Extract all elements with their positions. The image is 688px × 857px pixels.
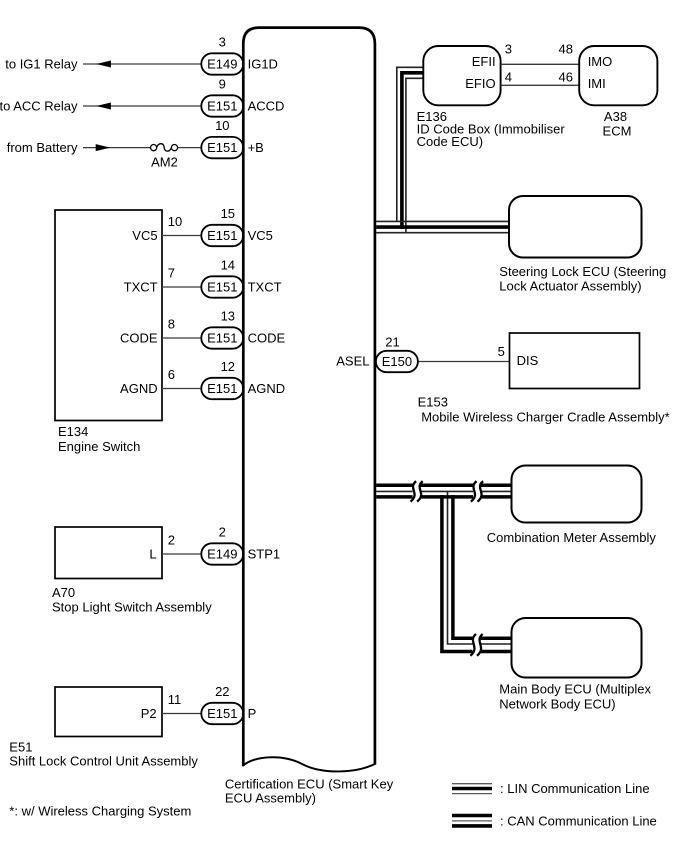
svg-text:Lock Actuator Assembly): Lock Actuator Assembly)	[499, 279, 641, 294]
wire TXCT	[162, 286, 212, 288]
svg-text:E149: E149	[207, 547, 237, 562]
svg-text:E151: E151	[207, 99, 237, 114]
svg-text:21: 21	[385, 334, 399, 349]
svg-text:Certification ECU (Smart Key: Certification ECU (Smart Key	[225, 776, 394, 791]
svg-text:A70: A70	[52, 585, 75, 600]
svg-text:E134: E134	[58, 424, 88, 439]
svg-text:EFIO: EFIO	[465, 76, 495, 91]
component box E134 Engine Switch	[55, 210, 162, 421]
wire L to STP1	[162, 553, 212, 555]
svg-text:IMO: IMO	[588, 54, 613, 69]
svg-text:DIS: DIS	[517, 353, 539, 368]
component box E51 Shift Lock Control Unit	[55, 687, 162, 737]
svg-text:to IG1 Relay: to IG1 Relay	[5, 56, 78, 71]
legend CAN symbol	[452, 814, 492, 818]
svg-text:13: 13	[221, 308, 235, 323]
wire EFII-IMO	[501, 63, 580, 65]
svg-text:VC5: VC5	[132, 228, 157, 243]
svg-text:ASEL: ASEL	[336, 354, 369, 369]
svg-text:EFII: EFII	[472, 54, 496, 69]
svg-text:from Battery: from Battery	[7, 140, 78, 155]
ECU torn bottom edge	[242, 757, 376, 771]
svg-text:E151: E151	[207, 381, 237, 396]
arrow from Battery	[96, 144, 111, 151]
svg-text:TXCT: TXCT	[248, 279, 282, 294]
wire from Battery	[83, 147, 150, 149]
svg-text:5: 5	[498, 344, 505, 359]
svg-text:ECU Assembly): ECU Assembly)	[225, 791, 316, 806]
svg-text:P: P	[248, 706, 257, 721]
svg-text:P2: P2	[141, 706, 157, 721]
connector E151 pin 15 (VC5)	[201, 225, 243, 246]
svg-text:E151: E151	[207, 280, 237, 295]
svg-text:3: 3	[219, 34, 226, 49]
svg-text:TXCT: TXCT	[124, 279, 158, 294]
svg-text:2: 2	[168, 532, 175, 547]
arrow to ACC Relay	[96, 103, 111, 110]
wire CODE	[162, 337, 212, 339]
svg-text:E149: E149	[207, 57, 237, 72]
svg-text:L: L	[149, 546, 156, 561]
wire break symbol 1	[413, 481, 421, 502]
svg-text:VC5: VC5	[248, 228, 273, 243]
ECU box A38 ECM	[579, 46, 657, 105]
component box E153 Mobile Wireless Charger Cradle	[510, 333, 640, 389]
svg-text:E151: E151	[207, 331, 237, 346]
svg-text:IMI: IMI	[588, 76, 606, 91]
svg-text:AGND: AGND	[120, 381, 158, 396]
wire AGND	[162, 388, 212, 390]
connector E151 pin 9 (ACCD)	[201, 95, 243, 116]
connector E151 pin 12 (AGND)	[201, 378, 243, 399]
svg-text:2: 2	[219, 524, 226, 539]
svg-text:8: 8	[168, 316, 175, 331]
svg-text:STP1: STP1	[248, 546, 281, 561]
connector E151 pin 14 (TXCT)	[201, 276, 243, 297]
wire to IG1 Relay	[83, 63, 212, 65]
connector E151 pin 22 (P)	[201, 703, 243, 724]
svg-text:Code ECU): Code ECU)	[417, 134, 483, 149]
svg-text:9: 9	[219, 76, 226, 91]
wire to ACC Relay	[83, 105, 212, 107]
svg-text:to ACC Relay: to ACC Relay	[0, 98, 78, 113]
svg-text:AGND: AGND	[248, 381, 286, 396]
component box A70 Stop Light Switch	[55, 527, 162, 579]
connector E149 pin 3 (IG1D)	[201, 53, 243, 74]
connector E150 pin 21 (ASEL)	[376, 351, 418, 372]
svg-text:46: 46	[559, 70, 573, 85]
svg-text:6: 6	[168, 367, 175, 382]
ECU box Combination Meter Assembly	[512, 466, 642, 523]
svg-text:E151: E151	[207, 140, 237, 155]
svg-text:E151: E151	[207, 228, 237, 243]
svg-text:E151: E151	[207, 706, 237, 721]
svg-text:IG1D: IG1D	[248, 56, 278, 71]
connector E149 pin 2 (STP1)	[201, 543, 243, 564]
connector E151 pin 13 (CODE)	[201, 327, 243, 348]
fuse AM2	[151, 145, 157, 151]
svg-text:11: 11	[168, 692, 182, 707]
svg-text:48: 48	[559, 42, 573, 57]
svg-text:Shift Lock Control Unit Assemb: Shift Lock Control Unit Assembly	[9, 753, 198, 768]
LIN bus branch up to E136	[397, 67, 424, 221]
svg-text:4: 4	[505, 70, 512, 85]
svg-text:3: 3	[505, 42, 512, 57]
svg-text:E153: E153	[418, 395, 448, 410]
svg-text:: CAN Communication Line: : CAN Communication Line	[500, 813, 657, 828]
svg-text:AM2: AM2	[151, 155, 178, 170]
svg-text:+B: +B	[248, 140, 264, 155]
svg-text:CODE: CODE	[248, 330, 286, 345]
wire break symbol 3 (main body branch)	[473, 634, 481, 657]
svg-text:Stop Light Switch Assembly: Stop Light Switch Assembly	[52, 600, 212, 615]
svg-text:10: 10	[168, 214, 182, 229]
ECU box E136 ID Code Box	[423, 46, 500, 105]
CAN bus vertical branch (thick-thin-thick)	[442, 495, 512, 652]
svg-text:14: 14	[221, 257, 235, 272]
svg-text:ACCD: ACCD	[248, 98, 285, 113]
wire break symbol 2	[473, 481, 481, 502]
svg-text:: LIN Communication Line: : LIN Communication Line	[500, 781, 650, 796]
legend LIN symbol	[452, 783, 492, 785]
arrow to IG1 Relay	[96, 61, 111, 68]
svg-text:Engine Switch: Engine Switch	[58, 439, 140, 454]
svg-text:A38: A38	[604, 109, 627, 124]
svg-text:*: w/ Wireless Charging System: *: w/ Wireless Charging System	[9, 804, 191, 819]
wire EFIO-IMI	[501, 84, 580, 86]
svg-text:12: 12	[221, 359, 235, 374]
svg-text:Mobile Wireless Charger Cradle: Mobile Wireless Charger Cradle Assembly*	[421, 409, 670, 424]
CAN bus wire ECU to Combination Meter	[376, 483, 511, 487]
ECU box Steering Lock ECU	[509, 196, 642, 258]
wire VC5	[162, 235, 212, 237]
svg-text:10: 10	[215, 118, 229, 133]
svg-text:E51: E51	[9, 739, 32, 754]
ECU box Certification ECU (Smart Key ECU Assembly)	[243, 28, 375, 766]
ECU box Main Body ECU	[512, 618, 642, 678]
svg-text:CODE: CODE	[120, 330, 158, 345]
svg-text:Network Body ECU): Network Body ECU)	[499, 697, 615, 712]
connector E151 pin 10 (+B)	[201, 137, 243, 158]
svg-text:22: 22	[215, 684, 229, 699]
svg-text:Steering Lock ECU (Steering: Steering Lock ECU (Steering	[499, 264, 666, 279]
svg-text:E150: E150	[382, 354, 412, 369]
wire ASEL to DIS	[405, 361, 510, 363]
svg-text:ECM: ECM	[603, 123, 632, 138]
svg-text:Combination Meter Assembly: Combination Meter Assembly	[487, 530, 657, 545]
wire P2 to P	[162, 713, 212, 715]
LIN bus wire ECU to Steering Lock ECU (thin-thick-thin)	[376, 220, 509, 222]
svg-text:15: 15	[221, 206, 235, 221]
svg-text:Main Body ECU (Multiplex: Main Body ECU (Multiplex	[499, 682, 651, 697]
svg-text:7: 7	[168, 265, 175, 280]
